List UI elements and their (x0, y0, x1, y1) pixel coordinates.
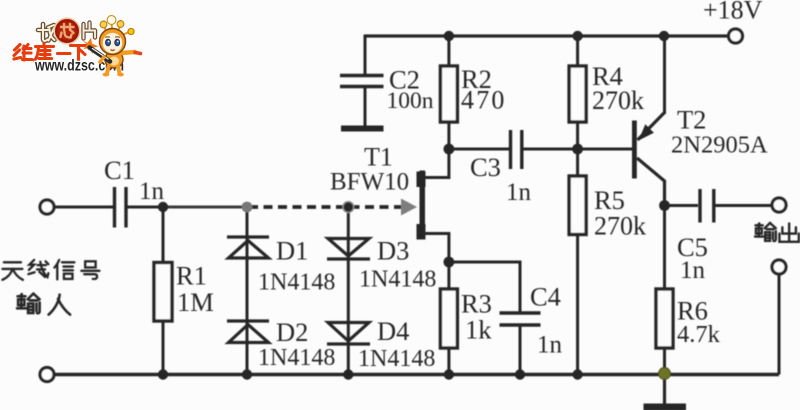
svg-text:2N2905A: 2N2905A (671, 132, 768, 159)
svg-text:1n: 1n (680, 257, 706, 284)
wire T1 drain (424, 150, 449, 178)
svg-text:D1: D1 (276, 236, 308, 266)
terminal output bottom (772, 260, 786, 274)
capacitor C5 (700, 189, 714, 223)
wire node C to C3 (449, 148, 509, 151)
svg-text:1N4148: 1N4148 (258, 345, 335, 371)
wire bottom rail (55, 373, 779, 377)
logo char zhao (find) outlined (38, 24, 55, 41)
resistor R3 (440, 289, 457, 348)
svg-text:C1: C1 (104, 155, 135, 185)
junction node on gate line at C1 (158, 202, 168, 212)
wire R4 top (576, 36, 579, 66)
wire R2 top (447, 36, 450, 66)
transistor T2 emitter arrow (639, 124, 654, 140)
svg-text:D4: D4 (377, 316, 409, 346)
svg-text:1n: 1n (139, 178, 165, 205)
wire node A to node B (gate line solid part) (163, 206, 247, 209)
logo mascot (82, 16, 141, 77)
text 天线信号 (antenna signal) (2, 260, 99, 280)
svg-text:100n: 100n (387, 88, 434, 114)
capacitor C4 (500, 313, 541, 325)
resistor R5 (569, 176, 586, 235)
svg-text:4.7k: 4.7k (677, 321, 721, 348)
wire C2 to chassis bar (364, 87, 367, 126)
capacitor C1 (115, 187, 127, 228)
wire C3 to node D (523, 148, 578, 151)
transistor T2 collector lead (637, 158, 665, 200)
junction node rail R4 (572, 31, 582, 41)
transistor T1 JFET body (417, 171, 426, 240)
junction node rail ground (olive) (659, 368, 671, 380)
LOGO_START (14, 16, 141, 77)
wire D1 D2 column (246, 207, 249, 375)
wire R5 column (576, 149, 579, 375)
junction node gate D3 (343, 202, 354, 213)
terminal output top (772, 198, 786, 212)
svg-text:1n: 1n (506, 179, 532, 206)
wire T2 collector to node E and down to R6 (663, 198, 666, 289)
wire input to C1 (55, 206, 113, 209)
junction node C (drain R2 C3) (444, 144, 455, 155)
svg-text:+18V: +18V (703, 0, 763, 25)
terminal input top (40, 200, 54, 214)
svg-text:R1: R1 (176, 261, 207, 291)
logo red circle with xin (54, 18, 80, 44)
svg-text:1N4148: 1N4148 (358, 346, 435, 372)
diode D2 (227, 321, 269, 343)
junction node gate D1 (gray) (242, 202, 253, 213)
resistor R4 (569, 66, 586, 122)
wire node E to C5 (665, 204, 699, 207)
junction node rail R2 (444, 31, 454, 41)
resistor R2 (440, 66, 457, 122)
junction node rail C4 (515, 369, 525, 379)
gate arrowhead of T1 (401, 199, 417, 216)
resistor R1 (154, 263, 172, 322)
svg-text:R5: R5 (594, 185, 625, 215)
wire R1 branch vertical (162, 207, 165, 375)
wire C2 branch from rail (364, 35, 367, 76)
svg-text:1n: 1n (537, 332, 563, 359)
wire D3 D4 column (347, 207, 350, 375)
wire C4 bottom to rail (519, 326, 522, 375)
svg-text:270k: 270k (594, 212, 646, 241)
wire R3 branch (447, 262, 450, 375)
transistor T2 emitter lead (638, 113, 665, 141)
terminal input bottom (40, 368, 54, 382)
transistor T2 base bar (632, 121, 637, 179)
svg-text:BFW10: BFW10 (330, 169, 409, 196)
wire R6 bottom (663, 348, 666, 375)
diode D4 (327, 323, 370, 345)
junction node D (R4 R5 C3 base) (572, 144, 583, 155)
svg-text:470: 470 (461, 86, 507, 115)
logo char pian (chip) outlined (84, 23, 96, 39)
logo text weiku yixia (red) (14, 44, 88, 62)
text 输入 (input) (17, 294, 70, 315)
junction node source R3 C4 (444, 257, 455, 268)
junction node rail R1 (158, 369, 168, 379)
wire C1 to node A (128, 206, 164, 209)
svg-text:T1: T1 (364, 143, 393, 172)
ground symbol (663, 374, 666, 404)
chassis ground bar of C2 (341, 126, 384, 132)
terminal +18V (729, 29, 743, 43)
svg-text:D2: D2 (276, 317, 308, 347)
wire T2 base (578, 148, 633, 151)
junction node rail T2 emitter (659, 31, 669, 41)
capacitor C2 (340, 76, 384, 87)
junction node rail D4 (343, 369, 353, 379)
junction node rail R3 (444, 369, 454, 379)
wire top supply rail (365, 34, 727, 37)
svg-text:T2: T2 (677, 105, 706, 135)
svg-text:1N4148: 1N4148 (359, 267, 436, 293)
svg-text:C3: C3 (470, 152, 501, 182)
svg-text:1M: 1M (177, 287, 214, 317)
svg-text:C4: C4 (530, 282, 561, 312)
wire lower output terminal to bottom rail (778, 276, 781, 375)
capacitor C3 (511, 130, 522, 169)
text 输出 (output) (755, 223, 799, 242)
wire R4 bottom to node D (576, 122, 579, 149)
wire C5 to output terminal (715, 204, 771, 207)
resistor R6 (656, 289, 673, 348)
wire T2 emitter to rail (663, 36, 666, 114)
svg-text:270k: 270k (592, 86, 644, 115)
junction node rail D2 (242, 369, 252, 379)
diode D1 (227, 237, 269, 258)
diode D3 (327, 239, 370, 260)
svg-text:1k: 1k (465, 315, 492, 345)
wire T1 source (424, 234, 449, 263)
wire source node to C4 branch (449, 262, 520, 312)
junction node rail R5 (572, 369, 582, 379)
wire R2 bottom to node C (447, 122, 450, 149)
svg-text:D3: D3 (377, 236, 409, 266)
wire gate dashed segment (249, 205, 401, 209)
junction node E (collector C5 R6) (659, 200, 670, 211)
svg-text:1N4148: 1N4148 (258, 270, 335, 296)
